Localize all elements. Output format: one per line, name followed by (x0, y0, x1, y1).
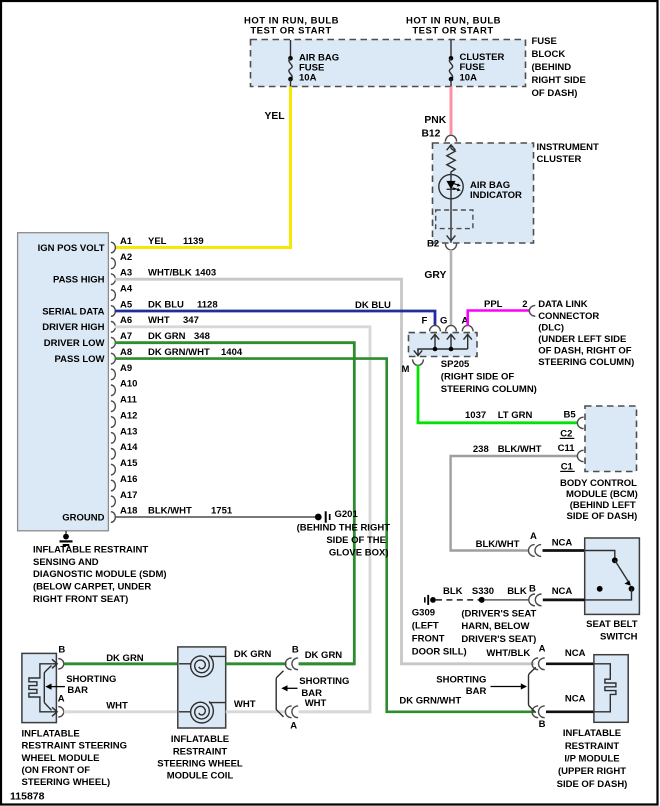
wire BLK/WHT 238 (BCM C11 to seat belt switch A) (451, 456, 578, 551)
svg-text:RESTRAINT: RESTRAINT (565, 741, 620, 752)
connector B12 at instrument cluster (445, 135, 456, 141)
wire GRY (cluster to SP205 G) (450, 250, 453, 326)
svg-text:(ON FRONT OF: (ON FRONT OF (22, 765, 91, 776)
svg-text:WHT: WHT (305, 698, 327, 709)
svg-text:A16: A16 (120, 474, 137, 485)
svg-text:BLK/WHT: BLK/WHT (498, 444, 542, 455)
svg-text:TEST OR START: TEST OR START (412, 26, 493, 37)
splice S330 (479, 597, 485, 603)
svg-text:DRIVER LOW: DRIVER LOW (44, 338, 105, 349)
svg-text:(RIGHT SIDE OF: (RIGHT SIDE OF (441, 372, 515, 383)
SDM pin number labels (120, 236, 138, 517)
wire into lower coil (179, 711, 191, 713)
connector (( A at I/P module (532, 658, 545, 670)
svg-text:WHT: WHT (148, 315, 170, 326)
svg-text:WHEEL MODULE: WHEEL MODULE (22, 753, 100, 764)
svg-text:OF DASH): OF DASH) (532, 88, 578, 99)
svg-text:B: B (292, 645, 299, 656)
fuse block box (251, 40, 526, 87)
connector (( B at coil (285, 658, 298, 670)
svg-text:STEERING COLUMN): STEERING COLUMN) (441, 384, 537, 395)
svg-text:WHT/BLK: WHT/BLK (148, 268, 192, 279)
svg-text:INFLATABLE RESTRAINT: INFLATABLE RESTRAINT (33, 544, 148, 555)
svg-text:C11: C11 (558, 443, 576, 454)
svg-text:DK GRN: DK GRN (106, 653, 144, 664)
wire BLK (S330 to seat belt B connector) (485, 599, 530, 601)
svg-text:(UPPER RIGHT: (UPPER RIGHT (558, 766, 626, 777)
svg-text:FUSE: FUSE (532, 36, 557, 47)
connector M (413, 359, 424, 365)
svg-text:SP205: SP205 (441, 359, 470, 370)
svg-text:1128: 1128 (197, 299, 218, 310)
svg-text:B: B (58, 645, 65, 656)
svg-text:PASS LOW: PASS LOW (55, 354, 105, 365)
wire DK GRN/WHT 1404 (A8 to I/P module B) (115, 359, 535, 712)
svg-text:DK GRN/WHT: DK GRN/WHT (399, 695, 461, 706)
node driver's seat harness label (461, 608, 536, 645)
svg-text:(BEHIND LEFT: (BEHIND LEFT (570, 500, 636, 511)
node steering wheel module label (22, 729, 128, 788)
svg-text:WHT/BLK: WHT/BLK (486, 648, 530, 659)
svg-text:WHT: WHT (234, 699, 256, 710)
node G309 location label (412, 607, 467, 657)
svg-text:GRY: GRY (424, 270, 446, 281)
node INSTRUMENT CLUSTER label (537, 142, 599, 165)
svg-text:YEL: YEL (148, 236, 167, 247)
svg-text:347: 347 (183, 315, 199, 326)
wire DK BLU 1128 (A5 to SP205 F) (115, 311, 436, 326)
svg-text:STEERING WHEEL): STEERING WHEEL) (22, 777, 111, 788)
connector at DLC (529, 305, 535, 316)
node coil label (157, 734, 243, 782)
svg-text:GLOVE BOX): GLOVE BOX) (329, 547, 389, 558)
svg-text:(BEHIND THE RIGHT: (BEHIND THE RIGHT (297, 523, 391, 534)
svg-text:G: G (440, 316, 447, 327)
svg-text:G201: G201 (335, 509, 359, 520)
svg-text:OF DASH, RIGHT OF: OF DASH, RIGHT OF (538, 346, 632, 357)
connector B2 (445, 244, 456, 250)
svg-text:G309: G309 (412, 607, 435, 618)
svg-text:PASS HIGH: PASS HIGH (53, 275, 105, 286)
wire arrow into cluster (447, 145, 456, 150)
svg-text:B: B (529, 584, 536, 595)
wire PPL (SP205 A to DLC) (468, 311, 529, 326)
svg-text:348: 348 (194, 331, 210, 342)
svg-text:IGN POS VOLT: IGN POS VOLT (38, 243, 105, 254)
arrow to shorting bar (coil connector) (286, 687, 298, 689)
shorting bar bracket in steering wheel module (44, 666, 51, 711)
svg-text:(UNDER LEFT SIDE: (UNDER LEFT SIDE (538, 334, 626, 345)
svg-text:(LEFT: (LEFT (412, 620, 439, 631)
svg-text:INFLATABLE: INFLATABLE (22, 729, 80, 740)
svg-text:(DLC): (DLC) (538, 322, 564, 333)
svg-text:SENSING AND: SENSING AND (33, 557, 99, 568)
svg-text:B5: B5 (564, 409, 577, 420)
svg-text:B: B (539, 719, 546, 730)
coil spiral lower (191, 701, 214, 723)
svg-text:RIGHT FRONT SEAT): RIGHT FRONT SEAT) (33, 594, 128, 605)
svg-text:NCA: NCA (552, 586, 573, 597)
arrow to shorting bar (left module) (50, 686, 65, 688)
svg-text:PNK: PNK (424, 115, 446, 126)
svg-text:I/P MODULE: I/P MODULE (564, 754, 619, 765)
node I/P module label (557, 728, 628, 790)
wire NCA to I/P module A (546, 662, 594, 665)
svg-text:STEERING COLUMN): STEERING COLUMN) (538, 357, 634, 368)
SDM internal pin-name labels (38, 243, 105, 524)
wire WHT/BLK 1403 (A3 to I/P module) (115, 279, 535, 664)
svg-text:BLK: BLK (507, 586, 527, 597)
wire NCA to I/P module B (546, 710, 594, 713)
svg-text:YEL: YEL (265, 111, 285, 122)
seat belt switch internals (585, 551, 635, 600)
svg-text:A5: A5 (120, 299, 133, 310)
node HOT IN RUN label (left) (244, 16, 339, 37)
svg-text:SIDE OF DASH): SIDE OF DASH) (567, 511, 638, 522)
svg-text:INFLATABLE: INFLATABLE (171, 734, 229, 745)
svg-text:INSTRUMENT: INSTRUMENT (537, 142, 599, 153)
svg-text:A10: A10 (120, 379, 137, 390)
connector (( at seat belt B (529, 594, 542, 606)
svg-text:238: 238 (473, 444, 489, 455)
BCM box (585, 406, 637, 472)
svg-text:INDICATOR: INDICATOR (470, 190, 522, 201)
wire into upper coil (179, 663, 191, 665)
fuse CLUSTER FUSE 10A (449, 40, 505, 87)
svg-text:F: F (422, 316, 428, 327)
svg-text:PPL: PPL (484, 299, 503, 310)
svg-text:1403: 1403 (195, 268, 216, 279)
svg-text:A1: A1 (120, 236, 133, 247)
svg-text:A: A (290, 720, 297, 731)
ground symbol below SDM (60, 531, 73, 545)
wire DK GRN (module B to coil) (64, 662, 178, 665)
wire WHT (coil to connector A) (226, 710, 287, 713)
node SEAT BELT SWITCH label (586, 619, 638, 643)
wire LED to B2 (450, 199, 452, 243)
svg-text:M: M (402, 364, 410, 375)
connector G (446, 325, 457, 331)
svg-text:BAR: BAR (67, 685, 88, 696)
shorting bar bracket at coil connector (276, 671, 283, 717)
wire NCA to seat belt A (543, 549, 585, 552)
wire WHT (module A to coil) (64, 710, 178, 713)
ground G201 (315, 511, 330, 522)
pin B of steering wheel module (52, 645, 65, 669)
svg-text:DK GRN: DK GRN (305, 650, 343, 661)
wire arrow out of cluster (447, 235, 456, 240)
svg-text:NCA: NCA (565, 694, 586, 705)
wire PNK B12 (fuse to cluster) (450, 87, 453, 135)
svg-text:DRIVER HIGH: DRIVER HIGH (42, 322, 104, 333)
resistor in cluster (447, 149, 455, 175)
wire BLK/WHT 1751 (A18 to G201) (115, 516, 316, 518)
svg-text:A6: A6 (120, 315, 132, 326)
svg-text:BLOCK: BLOCK (532, 49, 566, 60)
svg-text:DK BLU: DK BLU (148, 299, 184, 310)
svg-text:B2: B2 (427, 239, 439, 250)
node DATA LINK CONNECTOR label (538, 299, 634, 368)
svg-text:BLK/WHT: BLK/WHT (476, 539, 520, 550)
svg-text:LT GRN: LT GRN (498, 410, 533, 421)
wire DK GRN (coil to connector B) (226, 662, 287, 665)
svg-text:BODY CONTROL: BODY CONTROL (560, 478, 637, 489)
connector F (430, 325, 441, 331)
svg-text:A: A (58, 693, 65, 704)
stub from lower coil to box edge (209, 702, 226, 704)
node SHORTING BAR label (right) (436, 675, 486, 697)
fuse block location label (532, 36, 586, 99)
coil spiral upper (191, 655, 214, 677)
svg-text:HARN, BELOW: HARN, BELOW (461, 621, 529, 632)
svg-text:A: A (539, 644, 546, 655)
svg-text:A14: A14 (120, 442, 138, 453)
svg-text:1139: 1139 (183, 236, 204, 247)
SDM pin connectors A1-A18 (111, 242, 115, 522)
wire YEL 1139 (fuse to SDM A1) (115, 87, 291, 248)
pin A of steering wheel module (52, 693, 65, 717)
ground G309 (425, 595, 436, 605)
coil box (178, 647, 226, 728)
svg-text:MODULE (BCM): MODULE (BCM) (566, 489, 638, 500)
node SP205 labels (441, 359, 537, 395)
connector (( A at coil (285, 706, 298, 718)
seat belt switch box (585, 538, 640, 614)
svg-text:DRIVER'S SEAT): DRIVER'S SEAT) (461, 634, 536, 645)
wire WHT (connector A to A6 riser) (299, 710, 370, 713)
svg-text:C1: C1 (561, 461, 574, 472)
steering wheel module box (22, 653, 57, 722)
svg-text:BAR: BAR (466, 686, 487, 697)
LED air bag indicator U1 (439, 174, 463, 198)
svg-text:DK BLU: DK BLU (355, 300, 391, 311)
svg-text:A11: A11 (120, 395, 138, 406)
svg-text:1037: 1037 (465, 410, 486, 421)
svg-text:1404: 1404 (221, 347, 243, 358)
svg-text:10A: 10A (460, 72, 478, 83)
svg-text:A2: A2 (120, 252, 132, 263)
fuse AIR BAG FUSE 10A (288, 40, 339, 87)
svg-text:B12: B12 (422, 128, 441, 139)
node HOT IN RUN label (right) (406, 16, 501, 37)
svg-text:SEAT BELT: SEAT BELT (586, 619, 638, 630)
svg-text:SIDE OF THE: SIDE OF THE (326, 535, 386, 546)
dashed sub-box in cluster (436, 210, 473, 229)
connector (( at seat belt A (529, 545, 542, 557)
SP205 internal bus and arrows (414, 334, 472, 356)
node BCM location label (560, 478, 638, 522)
svg-text:FRONT: FRONT (412, 633, 445, 644)
squib element in steering wheel module (29, 664, 57, 712)
wire DK GRN 348 (A7 to coil connector B) (115, 343, 355, 664)
svg-text:WHT: WHT (106, 701, 128, 712)
svg-text:NCA: NCA (552, 538, 573, 549)
svg-text:DOOR SILL): DOOR SILL) (412, 646, 467, 657)
wire NCA to seat belt B (543, 599, 585, 602)
svg-text:DK GRN/WHT: DK GRN/WHT (148, 347, 210, 358)
shorting bar bracket at I/P module (529, 667, 536, 712)
svg-text:A7: A7 (120, 331, 132, 342)
svg-text:SIDE OF DASH): SIDE OF DASH) (557, 779, 628, 790)
connector A (SP205) (462, 325, 473, 331)
svg-text:1751: 1751 (211, 505, 233, 516)
svg-text:A: A (530, 531, 537, 542)
svg-text:A17: A17 (120, 490, 137, 501)
svg-text:SERIAL DATA: SERIAL DATA (42, 306, 104, 317)
svg-text:INFLATABLE: INFLATABLE (563, 728, 621, 739)
squib element in I/P module (594, 664, 616, 712)
svg-text:GROUND: GROUND (62, 512, 104, 523)
svg-text:NCA: NCA (565, 648, 586, 659)
splice pack SP205 box (409, 333, 478, 357)
svg-text:A15: A15 (120, 458, 138, 469)
wire BLK dashed (G309 to S330) (436, 599, 479, 601)
svg-text:CONNECTOR: CONNECTOR (538, 311, 599, 322)
connector C1 at BCM (577, 450, 583, 461)
svg-text:RESTRAINT: RESTRAINT (173, 746, 228, 757)
instrument cluster box (433, 143, 534, 243)
arrow to shorting bar (I/P) (491, 686, 522, 688)
svg-text:A3: A3 (120, 268, 132, 279)
svg-text:BLK: BLK (443, 586, 463, 597)
svg-text:A18: A18 (120, 505, 137, 516)
svg-text:RIGHT SIDE: RIGHT SIDE (532, 75, 586, 86)
svg-text:(BEHIND: (BEHIND (532, 62, 572, 73)
wire LT GRN 1037 (SP205 M to BCM B5) (418, 365, 577, 423)
connector B5/C2 at BCM (577, 417, 583, 428)
wire labels at SDM pins (148, 236, 243, 517)
svg-text:SHORTING: SHORTING (299, 676, 349, 687)
svg-text:MODULE COIL: MODULE COIL (167, 771, 234, 782)
svg-text:DK GRN: DK GRN (148, 331, 186, 342)
svg-text:BLK/WHT: BLK/WHT (148, 505, 192, 516)
connector (( B at I/P module (532, 706, 545, 718)
svg-text:SWITCH: SWITCH (600, 632, 638, 643)
svg-text:(DRIVER'S SEAT: (DRIVER'S SEAT (461, 608, 536, 619)
svg-text:A13: A13 (120, 426, 137, 437)
svg-text:CLUSTER: CLUSTER (537, 154, 582, 165)
svg-text:A4: A4 (120, 284, 133, 295)
svg-text:RESTRAINT STEERING: RESTRAINT STEERING (22, 741, 128, 752)
svg-text:SHORTING: SHORTING (66, 674, 116, 685)
svg-text:A9: A9 (120, 363, 132, 374)
svg-text:SHORTING: SHORTING (436, 675, 486, 686)
wire WHT 347 (A6 to coil connector A) (115, 327, 371, 712)
svg-text:2: 2 (522, 299, 527, 310)
svg-text:10A: 10A (299, 73, 317, 84)
svg-text:115878: 115878 (10, 791, 45, 803)
svg-text:A8: A8 (120, 347, 132, 358)
svg-text:TEST OR START: TEST OR START (250, 26, 331, 37)
svg-text:DATA LINK: DATA LINK (538, 299, 588, 310)
stub from upper coil to box edge (209, 655, 226, 657)
svg-text:(BELOW CARPET, UNDER: (BELOW CARPET, UNDER (33, 582, 151, 593)
svg-text:DK GRN: DK GRN (234, 649, 272, 660)
svg-text:DIAGNOSTIC MODULE (SDM): DIAGNOSTIC MODULE (SDM) (33, 569, 167, 580)
node G201 labels (297, 509, 391, 558)
wire DK GRN (connector B to A7 riser) (299, 662, 354, 665)
node AIR BAG INDICATOR label (470, 180, 522, 201)
svg-text:A12: A12 (120, 410, 137, 421)
SDM module box (18, 233, 109, 531)
svg-text:S330: S330 (472, 586, 494, 597)
SDM location label (33, 544, 167, 605)
svg-text:C2: C2 (560, 428, 572, 439)
I/P module box (594, 655, 628, 723)
svg-text:STEERING WHEEL: STEERING WHEEL (157, 759, 243, 770)
